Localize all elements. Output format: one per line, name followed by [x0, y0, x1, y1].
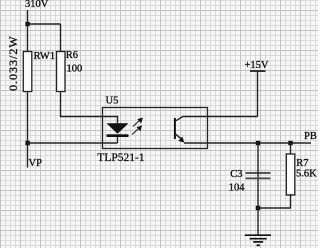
junction C3 top: [256, 141, 260, 145]
junction VP: [25, 141, 29, 145]
resistor RW1: [23, 52, 32, 92]
wire C3 top: [257, 143, 259, 208]
wire ground stem: [257, 208, 259, 235]
ground: [245, 235, 271, 245]
svg-text:310V: 310V: [25, 0, 49, 10]
svg-text:R6: R6: [66, 50, 78, 61]
transistor Q (photo) base bar: [174, 118, 176, 139]
diode LED cathode bar: [107, 134, 129, 137]
svg-text:RW1: RW1: [34, 51, 56, 62]
wire RW1 bottom to VP: [27, 92, 29, 168]
capacitor C3 plate bottom: [246, 177, 271, 179]
svg-text:TLP521-1: TLP521-1: [97, 152, 145, 164]
svg-text:U5: U5: [106, 96, 119, 107]
svg-text:PB: PB: [304, 131, 317, 142]
junction R7 top: [288, 141, 292, 145]
transistor emitter arrowhead: [178, 137, 184, 143]
capacitor C3 plate top: [246, 172, 271, 174]
light arrow 2: [132, 126, 141, 134]
wire +15V riser: [257, 71, 259, 117]
wire emitter rail to PB: [184, 142, 311, 144]
wire R6 bottom: [61, 92, 118, 124]
svg-text:5.6K: 5.6K: [296, 169, 317, 180]
power +15V bar: [250, 70, 266, 72]
junction 310V branch: [25, 22, 29, 26]
svg-text:100: 100: [67, 64, 83, 75]
junction ground node: [256, 206, 260, 210]
transistor emitter: [176, 134, 182, 139]
svg-text:R7: R7: [296, 158, 308, 169]
svg-text:104: 104: [229, 183, 246, 194]
wire R7 top: [290, 143, 292, 154]
op-amp U5 box (optocoupler): [103, 108, 208, 149]
svg-text:+15V: +15V: [245, 60, 269, 71]
resistor R6: [57, 52, 66, 92]
svg-text:C3: C3: [230, 169, 242, 180]
transistor collector: [176, 117, 258, 121]
resistor R7: [286, 154, 295, 195]
svg-text:0.033/2W: 0.033/2W: [6, 35, 20, 91]
wire 310V vertical: [27, 10, 29, 52]
wire VP rail: [28, 142, 118, 144]
wire LED cathode: [117, 137, 119, 143]
diode LED triangle: [107, 123, 129, 134]
wire branch horizontal: [28, 23, 61, 25]
light arrow 1: [133, 118, 142, 126]
wire R7 bottom: [258, 194, 291, 208]
wire R6 top: [60, 24, 62, 52]
svg-text:VP: VP: [29, 158, 43, 169]
